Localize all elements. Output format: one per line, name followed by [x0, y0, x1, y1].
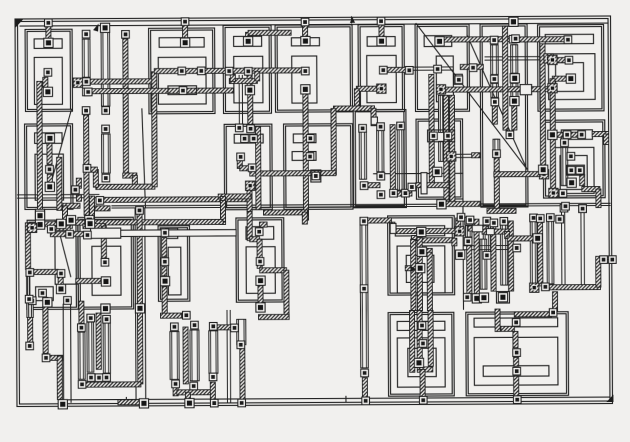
wire [210, 382, 215, 400]
diffusion G [474, 337, 558, 385]
contact [579, 205, 587, 213]
transistor gate [170, 332, 179, 380]
contact [25, 295, 33, 303]
contact [210, 399, 218, 407]
poly bar [35, 133, 62, 144]
cell C1 outline [27, 220, 78, 309]
wire [43, 77, 48, 87]
contact [463, 293, 471, 301]
contact [78, 324, 86, 332]
wire [604, 134, 609, 145]
contact [609, 256, 617, 264]
top cell row line [20, 23, 608, 26]
poly bar F [397, 321, 445, 330]
wire [183, 19, 188, 38]
wire [460, 64, 483, 69]
cell D2 outline [236, 218, 284, 302]
wire [354, 89, 359, 109]
wire [555, 58, 570, 63]
contact [490, 36, 498, 44]
wire [494, 158, 499, 213]
wire [446, 201, 480, 206]
contact [47, 225, 55, 233]
contact [57, 270, 65, 278]
contact [379, 66, 387, 74]
cell A1b outline [25, 124, 73, 210]
cell B2 outline [353, 110, 406, 208]
diffusion D1 [168, 247, 181, 295]
wire [450, 161, 455, 202]
tick [125, 397, 127, 402]
contact [576, 166, 584, 174]
wire [237, 160, 242, 168]
contact [46, 166, 54, 174]
wire [472, 153, 480, 158]
wire [70, 219, 223, 225]
contact [416, 264, 425, 273]
contact [26, 269, 34, 277]
contact [559, 190, 567, 198]
wire [303, 24, 308, 37]
wire [570, 132, 580, 137]
wire [230, 74, 235, 81]
contact [435, 37, 444, 46]
wire [417, 237, 422, 310]
contact [238, 399, 246, 407]
contact [377, 17, 385, 25]
contact [96, 197, 104, 205]
contact [377, 84, 386, 93]
contact [510, 96, 519, 105]
contact [530, 283, 539, 292]
band box [395, 226, 444, 236]
tick [345, 396, 347, 401]
gate a7-1 [491, 45, 499, 75]
wire [84, 115, 90, 215]
poly bar G [474, 318, 558, 327]
wire [456, 218, 461, 227]
rail [144, 208, 147, 400]
contact [102, 107, 110, 115]
contact [245, 86, 254, 95]
stray diagonal 2 [467, 35, 527, 169]
gate rc1b [480, 239, 487, 289]
wire [118, 400, 141, 405]
wire [540, 44, 546, 166]
wire [491, 219, 496, 291]
contact box [428, 130, 455, 142]
contact [512, 319, 520, 327]
rail [70, 304, 72, 402]
contact [417, 247, 426, 256]
wire [580, 175, 585, 186]
contact [101, 277, 110, 286]
diffusion A2 [158, 57, 206, 104]
contact [248, 164, 256, 172]
wire [58, 277, 63, 285]
wire [510, 37, 564, 42]
wire [507, 236, 535, 241]
wire [95, 206, 110, 211]
wire [47, 143, 52, 164]
wire [443, 37, 509, 42]
contact [567, 166, 575, 174]
wire [246, 32, 251, 36]
wire [505, 232, 510, 239]
contact [160, 277, 169, 286]
transistor gate [397, 123, 404, 190]
arrow mark 2 [350, 17, 355, 23]
wire [514, 376, 519, 398]
contact [539, 165, 548, 174]
wire [257, 263, 262, 268]
contact [247, 125, 255, 133]
contact [433, 167, 442, 176]
contact [181, 38, 190, 47]
contact [414, 358, 423, 367]
contact [43, 87, 52, 96]
wire [362, 378, 367, 398]
contact [45, 19, 53, 27]
wire [492, 106, 497, 124]
white box [390, 223, 396, 233]
transistor gate [466, 226, 472, 237]
wire [30, 269, 58, 274]
wire [256, 127, 261, 210]
wire [218, 194, 251, 199]
poly bar D2 [246, 227, 274, 240]
contact [560, 204, 568, 212]
cell A6 outline [415, 24, 469, 111]
contact [455, 76, 463, 84]
wire [596, 256, 601, 287]
wire [96, 184, 155, 189]
contact [533, 234, 542, 243]
cell F outline [388, 312, 454, 396]
contact [377, 123, 385, 131]
contact [237, 153, 245, 161]
inner well A8 [556, 63, 584, 92]
wire [356, 86, 377, 91]
wire [89, 196, 94, 219]
wire [76, 195, 81, 201]
poly bar B1 [234, 134, 263, 143]
wire [101, 226, 106, 258]
contact [172, 380, 180, 388]
poly bar G2 [483, 366, 549, 377]
wire [123, 173, 137, 178]
contact [161, 258, 169, 266]
diffusion E [397, 246, 445, 293]
wire [390, 125, 395, 194]
wire [250, 171, 336, 176]
contact [190, 382, 198, 390]
channel rail [112, 203, 610, 206]
corner wedge [606, 394, 613, 402]
poly bar [367, 37, 395, 47]
contact [360, 182, 368, 190]
wire [494, 172, 540, 177]
contact [455, 227, 464, 236]
wire [44, 222, 57, 227]
contact [457, 213, 465, 221]
rail [62, 304, 64, 402]
wire [84, 88, 233, 94]
bottom rail [63, 397, 609, 400]
wire [132, 175, 137, 186]
wire [96, 313, 101, 369]
gate c1 [27, 302, 33, 317]
diffusion A1b [35, 154, 64, 200]
diffusion B4 [555, 147, 595, 193]
bus wires [227, 310, 231, 402]
contact [360, 285, 368, 293]
contact [95, 374, 103, 382]
transistor gate [237, 319, 246, 344]
contact [417, 227, 426, 236]
contact [563, 131, 571, 139]
contact [82, 107, 90, 115]
wire [603, 257, 611, 262]
contact [544, 54, 553, 63]
wire [424, 248, 433, 253]
gate a7-3b [511, 83, 518, 97]
contact [547, 214, 555, 222]
wire [420, 369, 425, 397]
stray line [49, 109, 71, 187]
cell A1a outline [25, 29, 72, 111]
wire [67, 216, 72, 228]
contact [235, 124, 243, 132]
wire [514, 357, 519, 366]
wire [37, 81, 43, 214]
contact [360, 217, 368, 225]
contact [73, 78, 82, 87]
cell B4 outline [543, 120, 605, 198]
contact [377, 172, 385, 180]
contact [567, 178, 576, 187]
contact [405, 67, 413, 75]
contact [377, 37, 386, 46]
contact [483, 217, 491, 225]
contact [44, 69, 52, 77]
gate b2-1 [359, 132, 366, 179]
wire [487, 208, 516, 213]
wire [255, 71, 260, 81]
contact [444, 132, 452, 140]
contact [44, 38, 53, 47]
contact [35, 209, 44, 218]
contact [39, 289, 47, 297]
contact [101, 304, 110, 313]
wire [410, 310, 415, 372]
contact [84, 231, 92, 239]
contact [561, 139, 569, 147]
bus wires [485, 57, 545, 61]
contact [256, 303, 265, 312]
contact [45, 134, 54, 143]
bus wires [413, 67, 452, 70]
rail [374, 172, 463, 174]
wire [417, 310, 422, 372]
wire [240, 346, 245, 400]
white box [91, 228, 121, 238]
contact [237, 341, 245, 349]
wire [259, 222, 267, 227]
contact [390, 189, 398, 197]
wire [76, 178, 81, 188]
contact [57, 219, 66, 228]
contact [209, 373, 217, 381]
cell A5 outline [358, 25, 404, 112]
contact [66, 216, 75, 225]
wire [452, 238, 457, 246]
inner well F [408, 348, 436, 377]
wire [508, 221, 513, 291]
gate rc2 [500, 225, 507, 285]
contact [509, 17, 518, 26]
wire [411, 238, 454, 243]
contact box [496, 292, 509, 304]
contact [402, 189, 410, 197]
wire [333, 106, 374, 111]
wire [57, 356, 62, 399]
contact [301, 36, 310, 45]
wire [428, 310, 433, 366]
wire [162, 238, 167, 257]
contact [397, 122, 405, 130]
contact box [454, 74, 463, 84]
contact [58, 400, 67, 409]
wire [247, 190, 252, 211]
contact [87, 374, 95, 382]
contact box [567, 165, 585, 175]
contact [35, 220, 44, 229]
contact [45, 182, 54, 191]
gate b4 [561, 148, 568, 186]
contact [26, 342, 34, 350]
wire [474, 219, 479, 294]
wire [501, 326, 514, 331]
wire [240, 166, 253, 171]
diffusion A4 [292, 56, 317, 103]
wire box [168, 86, 197, 95]
wire [549, 285, 600, 290]
wire [513, 331, 518, 347]
rail [134, 208, 137, 400]
cell B1b outline [284, 124, 353, 210]
cell A3 outline [223, 25, 271, 113]
cell A7 outline [480, 24, 528, 207]
contact [100, 23, 109, 32]
rails [239, 75, 242, 129]
wire [467, 246, 472, 294]
gate b2-2 [377, 131, 384, 172]
contact [466, 216, 474, 224]
contact [491, 75, 499, 83]
white box [520, 85, 531, 95]
inner well E [406, 255, 434, 282]
stray line 2 [142, 109, 146, 208]
contact [301, 18, 309, 26]
wire [248, 30, 291, 35]
contact [27, 223, 36, 232]
channel rail [112, 206, 610, 209]
diffusion A1a [34, 57, 62, 104]
contact [506, 131, 514, 139]
bus wires [26, 223, 30, 310]
poly bar [424, 36, 452, 47]
contact [600, 256, 608, 264]
transistor gate [209, 331, 218, 373]
wire [512, 106, 517, 130]
contact [64, 297, 72, 305]
wire [412, 235, 417, 240]
wire [260, 268, 287, 273]
contact [562, 202, 570, 210]
gate b3-1b [439, 141, 445, 161]
contact [419, 340, 427, 348]
contact [548, 130, 557, 139]
contact [530, 214, 538, 222]
wire [76, 278, 101, 283]
cell G outline [466, 312, 569, 396]
contact [87, 314, 95, 322]
bus wires [18, 194, 99, 198]
gate rc4 [547, 221, 554, 284]
contact [171, 323, 179, 331]
poly bar [291, 38, 319, 46]
wire [173, 384, 178, 396]
cell boundary [462, 199, 465, 309]
contact [491, 98, 499, 106]
contact [362, 397, 370, 405]
contact [513, 349, 521, 357]
contact [102, 174, 110, 182]
contact [181, 18, 189, 26]
contact [72, 186, 80, 194]
contact [483, 252, 491, 260]
wire [152, 72, 158, 187]
contact [244, 68, 252, 76]
cell D1 outline [158, 226, 190, 302]
wire [514, 312, 551, 317]
contact [513, 244, 521, 252]
wire [229, 78, 257, 83]
cell A4 outline [275, 25, 352, 112]
poly bar [545, 34, 593, 44]
gate rc3 [530, 221, 537, 284]
wire [28, 317, 33, 342]
inner well B4 [560, 156, 587, 190]
wire [411, 239, 416, 310]
contact [139, 399, 148, 408]
contact [548, 84, 557, 93]
contact [183, 311, 191, 319]
diffusion A8 [548, 54, 595, 100]
wire [412, 360, 419, 365]
contact [244, 37, 253, 46]
wire [247, 74, 252, 86]
wire [502, 26, 508, 130]
contact [191, 321, 199, 329]
contact [301, 85, 310, 94]
contact [513, 367, 521, 375]
contact [359, 125, 367, 133]
contact [28, 297, 36, 305]
wire [96, 197, 251, 203]
contact [565, 56, 573, 64]
